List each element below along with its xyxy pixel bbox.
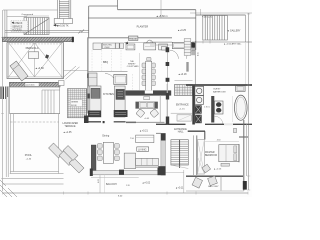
entry door arc right bbox=[186, 50, 195, 59]
dark block bottom right bbox=[243, 181, 247, 190]
planter top wall bbox=[118, 9, 196, 11]
balcony chairs right 1 bbox=[192, 177, 202, 188]
kitchen counter wall line bbox=[88, 37, 172, 39]
gallery stair top rail bbox=[196, 14, 246, 16]
svg-text:ENTRANCE: ENTRANCE bbox=[176, 104, 189, 107]
corridor wall dark cap b bbox=[166, 117, 169, 125]
armchair left bbox=[136, 109, 145, 118]
left wall double line a bbox=[4, 10, 6, 38]
bed dim line bbox=[205, 141, 239, 143]
counter box 4 bbox=[120, 43, 124, 49]
pool deck south line2 bbox=[3, 183, 64, 185]
pool inner left line3 bbox=[9, 114, 11, 174]
door threshold mark bbox=[103, 121, 105, 123]
svg-text:Dining: Dining bbox=[102, 135, 109, 138]
left wall marks gallery bbox=[186, 62, 188, 72]
pergola roof diagonals bbox=[9, 43, 62, 77]
svg-text:GUEST: GUEST bbox=[213, 89, 221, 91]
wardrobe diagonals bbox=[198, 140, 205, 175]
corridor wall dark cap a bbox=[166, 93, 169, 100]
gallery shelf stripes bbox=[184, 39, 191, 56]
porch edge line bbox=[171, 112, 193, 114]
stair east wall bbox=[193, 135, 195, 175]
svg-text:SERVICE: SERVICE bbox=[12, 26, 23, 28]
svg-text:+CHECK: +CHECK bbox=[13, 23, 23, 25]
winery room west line bbox=[138, 53, 140, 90]
balcony chairs right 2 bbox=[208, 176, 218, 186]
planter east vline bbox=[160, 0, 162, 18]
sofa cushion 1 bbox=[140, 103, 146, 108]
bedroom north wall bbox=[205, 123, 252, 125]
svg-text:▲+0.02: ▲+0.02 bbox=[142, 182, 151, 185]
main sofa seat bbox=[136, 158, 159, 165]
svg-text:BBQ: BBQ bbox=[103, 61, 108, 64]
kitchen tall unit right bbox=[114, 75, 127, 85]
rail dark left end bbox=[90, 169, 93, 177]
gallery east light line bbox=[245, 42, 247, 85]
counter box A inner bbox=[127, 45, 134, 49]
bathroom mid faint line bbox=[231, 96, 233, 122]
corridor door post 3 bbox=[166, 78, 170, 82]
hall west wall band bbox=[161, 133, 166, 175]
bottom right balcony line bbox=[186, 190, 244, 192]
top-left wall stub bbox=[7, 16, 27, 18]
LIVING boxed label bbox=[137, 147, 149, 151]
porch bench diagonal bbox=[177, 115, 192, 121]
island right drawer lines bbox=[115, 112, 126, 114]
bed bench bbox=[221, 163, 229, 166]
planter band end post bbox=[72, 37, 74, 42]
dining chairs left bbox=[97, 144, 102, 161]
wall jog vertical bbox=[204, 131, 206, 139]
entry dark blob bbox=[191, 43, 195, 48]
bed pillow 2 bbox=[234, 154, 237, 161]
island left lower dark bbox=[88, 111, 101, 118]
counter appliance box 1 bbox=[93, 43, 101, 49]
hall wall dark cap top bbox=[161, 133, 166, 140]
svg-text:4.50: 4.50 bbox=[217, 140, 221, 142]
gallery right wall bbox=[245, 15, 247, 42]
pool left inner lines bbox=[5, 87, 7, 177]
right wall lower bbox=[243, 120, 245, 191]
pool water dashed line bbox=[10, 121, 58, 123]
svg-text:COURTYARD: COURTYARD bbox=[127, 65, 139, 68]
wall south of kitchen bbox=[89, 121, 102, 123]
wall dark segment bbox=[126, 122, 136, 124]
corridor wall lower part bbox=[166, 84, 168, 124]
svg-text:▲+0.11: ▲+0.11 bbox=[175, 187, 184, 190]
kitchen island left bbox=[90, 86, 101, 117]
svg-text:HALL: HALL bbox=[178, 131, 184, 134]
top vertical stub bbox=[117, 0, 119, 10]
svg-text:+1.15: +1.15 bbox=[179, 109, 185, 111]
hall west wall stub line bbox=[156, 132, 161, 134]
kitchen door arc bbox=[105, 74, 116, 85]
deck area outline bbox=[10, 87, 60, 114]
basin circle 1 bbox=[197, 88, 202, 93]
bed pillow 1 bbox=[234, 146, 237, 153]
planter right wall bbox=[195, 10, 197, 50]
bedroom chair bbox=[202, 164, 211, 173]
pool bottom line2 bbox=[10, 173, 64, 175]
corridor closet hline 2 bbox=[150, 44, 172, 46]
CHECK SERVICE ACCESS label bbox=[11, 21, 28, 32]
svg-text:BALCONY: BALCONY bbox=[208, 185, 219, 188]
living north wall bbox=[126, 121, 165, 123]
terrace wall label box bbox=[25, 83, 39, 87]
main sofa chaise bbox=[124, 153, 135, 169]
column south of kitchen bbox=[84, 116, 89, 124]
entrance upper west wall bbox=[159, 95, 161, 122]
bedroom west wall bbox=[196, 135, 198, 175]
svg-text:OVEN: OVEN bbox=[104, 47, 110, 49]
svg-text:▲+0.13: ▲+0.13 bbox=[214, 167, 222, 170]
green roof grid block bbox=[68, 89, 87, 118]
wall east of door gap bbox=[114, 121, 126, 123]
svg-text:Overground: Overground bbox=[22, 13, 34, 16]
corridor closet hline 1 bbox=[150, 41, 172, 43]
shower X mark 2 bbox=[196, 115, 201, 122]
kitchen mid wall line bbox=[88, 70, 128, 72]
terrace south hatched wall bbox=[10, 82, 61, 87]
art gallery dimension line bbox=[192, 41, 252, 43]
bathroom door arc bbox=[215, 116, 223, 124]
entry closet inner bbox=[174, 44, 185, 48]
left wall double line b bbox=[6, 10, 8, 38]
winery south thick wall bbox=[126, 90, 172, 95]
pergola top tick hatch bbox=[9, 43, 60, 45]
balcony east wall bbox=[220, 176, 222, 190]
corridor wall bbox=[166, 47, 168, 84]
pool right edge bbox=[58, 114, 60, 174]
fridge unit divider bbox=[89, 77, 98, 79]
island right lower dark bbox=[114, 110, 128, 117]
sink inner line bbox=[145, 45, 155, 47]
guest basin box 2 bbox=[195, 96, 204, 105]
fridge label box bbox=[129, 36, 138, 40]
pergola inner right line bbox=[61, 43, 63, 79]
vertical dim line balcony bbox=[99, 175, 101, 193]
bedroom corner wall top bbox=[239, 136, 248, 138]
guest basin box 1 bbox=[195, 86, 204, 95]
balcony glass rail band bbox=[91, 171, 160, 175]
right basin bowl 1 bbox=[216, 102, 221, 107]
svg-text:▲+0.21: ▲+0.21 bbox=[139, 129, 148, 132]
thick wall west of dining bbox=[91, 145, 96, 170]
long table head chair bbox=[147, 57, 151, 61]
svg-text:pool deck: pool deck bbox=[26, 85, 36, 87]
arrow to stair bbox=[54, 24, 60, 26]
gallery west wall bbox=[194, 41, 196, 85]
svg-text:BALCONY: BALCONY bbox=[106, 183, 117, 186]
pergola table bbox=[28, 52, 38, 59]
svg-text:BEDROOM: BEDROOM bbox=[205, 155, 217, 157]
entry door arc left bbox=[170, 50, 179, 59]
tall unit inner rect bbox=[115, 76, 125, 83]
gallery stair top right bbox=[203, 16, 228, 41]
main vertical wall west of kitchen bbox=[88, 6, 90, 37]
dimension tick right top bbox=[200, 9, 202, 15]
bathroom north wall bbox=[186, 84, 252, 86]
bathtub inner bbox=[236, 97, 245, 118]
svg-text:LANDSCAPED: LANDSCAPED bbox=[63, 122, 79, 125]
right basin unit bbox=[215, 101, 224, 114]
terrace ramp diagonal 1 bbox=[62, 66, 76, 79]
vertical line right balcony bbox=[183, 170, 185, 193]
bathroom divider wall bbox=[211, 96, 214, 123]
pool left inner line2 bbox=[7, 87, 9, 177]
wc cistern box bbox=[236, 86, 246, 92]
dining table bbox=[103, 142, 113, 163]
floor grid dashed lines bbox=[92, 50, 121, 71]
svg-text:ENTRANCE: ENTRANCE bbox=[174, 128, 187, 131]
bedroom south wall bbox=[186, 175, 243, 177]
winery counter box A bbox=[126, 44, 135, 50]
left boundary line bbox=[1, 10, 3, 191]
terrace edge line bbox=[64, 69, 89, 71]
small box at band end bbox=[59, 81, 65, 86]
west wall cabinet dark 1 bbox=[87, 74, 90, 79]
svg-text:KITCHEN: KITCHEN bbox=[103, 93, 114, 96]
shower dark box 1 bbox=[195, 105, 202, 113]
counter end marker bbox=[125, 42, 128, 45]
sofa console table bbox=[144, 97, 150, 100]
svg-text:▲+0.25: ▲+0.25 bbox=[178, 29, 187, 32]
roof ladder top-center bbox=[58, 0, 71, 19]
long dining table bbox=[146, 61, 152, 91]
counter hob box bbox=[115, 43, 119, 49]
shower dark box 2 bbox=[195, 115, 202, 124]
long table chairs right bbox=[152, 63, 156, 86]
art gallery ticks bbox=[196, 41, 210, 44]
balcony line right bbox=[162, 172, 184, 174]
armchair right bbox=[150, 109, 159, 118]
TV console bbox=[136, 135, 154, 143]
svg-text:MASTER: MASTER bbox=[205, 151, 215, 154]
deck step lines bbox=[42, 90, 60, 114]
winery counter box B bbox=[159, 44, 168, 50]
svg-text:1.20: 1.20 bbox=[126, 185, 130, 187]
main sofa cushions bbox=[141, 158, 152, 165]
svg-text:BATHROOM: BATHROOM bbox=[213, 90, 226, 93]
svg-text:4.50 1.20: 4.50 1.20 bbox=[202, 16, 213, 19]
long table chairs left bbox=[142, 63, 146, 86]
sofa dark armrest right bbox=[154, 102, 157, 109]
living sofa north bbox=[136, 102, 158, 109]
entrance hall north wall bbox=[156, 123, 186, 125]
bed bbox=[219, 145, 239, 162]
balcony floor line bbox=[91, 177, 139, 179]
green roof label box bbox=[70, 100, 82, 107]
svg-text:▲+4.50: ▲+4.50 bbox=[35, 67, 44, 70]
bed blanket line bbox=[225, 145, 227, 162]
svg-text:GREEN: GREEN bbox=[71, 102, 79, 104]
sink faucet arc bbox=[147, 40, 153, 43]
svg-text:+0.45: +0.45 bbox=[144, 118, 150, 120]
line break symbol bbox=[79, 29, 84, 33]
counter row line bbox=[124, 41, 172, 43]
entry closet box 2 bbox=[186, 42, 194, 48]
sofa dark armrest left bbox=[136, 102, 139, 109]
bottom dimension ticks bbox=[3, 192, 248, 195]
main sofa back bbox=[136, 166, 159, 168]
entry mat top line bbox=[175, 80, 193, 82]
entry gray block below bbox=[191, 48, 195, 55]
hall wall dark cap bottom bbox=[158, 166, 166, 175]
pergola chaise lounge bbox=[10, 61, 28, 81]
winery dashed line bbox=[131, 74, 133, 90]
entry closet box 1 bbox=[172, 42, 186, 48]
stove inner lines bbox=[118, 91, 124, 96]
pergola inner bottom line bbox=[7, 76, 64, 78]
pool bottom inner line bbox=[10, 171, 58, 173]
island right stove dark bbox=[116, 89, 124, 99]
svg-text:▲+5.60 m: ▲+5.60 m bbox=[156, 15, 168, 18]
shower X mark 1 bbox=[196, 106, 201, 113]
vertical line below table bbox=[103, 175, 105, 193]
svg-text:ROOF: ROOF bbox=[71, 105, 78, 107]
west wall cabinet dark 2 bbox=[87, 94, 90, 99]
svg-text:1.70 m: 1.70 m bbox=[204, 107, 210, 109]
top-left long line bbox=[3, 9, 57, 11]
pergola inner left line bbox=[8, 43, 10, 79]
ground hatch bottom-left corner bbox=[0, 180, 17, 197]
pergola outline bbox=[7, 43, 64, 79]
pergola grill dark mark bbox=[45, 54, 49, 58]
right wall lower inner bbox=[245, 124, 247, 176]
right dimension line bbox=[248, 13, 250, 190]
upper terrace edge lower line bbox=[5, 31, 89, 33]
pool-side steps dark marks bbox=[1, 87, 8, 100]
kitchen fridge unit bbox=[89, 73, 98, 86]
kitchen west wall bbox=[87, 37, 89, 113]
svg-text:PERGOLA: PERGOLA bbox=[26, 46, 39, 50]
wall door notch bbox=[145, 90, 153, 93]
svg-text:4.55: 4.55 bbox=[197, 52, 199, 56]
top-right dimension line bbox=[190, 12, 252, 14]
bed headboard bbox=[238, 144, 240, 162]
bottom dimension line bbox=[3, 192, 248, 194]
svg-text:▲+5.56 TK: ▲+5.56 TK bbox=[57, 24, 69, 27]
left dimension ticks bbox=[1, 37, 4, 178]
ladder landing bbox=[54, 19, 72, 24]
svg-text:FRIDGE: FRIDGE bbox=[129, 38, 137, 40]
bathtub bbox=[235, 95, 248, 120]
bedroom nightstand bbox=[234, 128, 237, 132]
dining chairs right bbox=[115, 144, 120, 161]
planter wall hatched band bbox=[2, 37, 73, 41]
svg-text:▲+0.18: ▲+0.18 bbox=[178, 73, 187, 76]
wall lighter gap bbox=[224, 123, 233, 125]
svg-text:ACCESS: ACCESS bbox=[12, 29, 22, 32]
svg-text:LIVING: LIVING bbox=[138, 147, 147, 151]
svg-text:◄ GALLERY: ◄ GALLERY bbox=[227, 29, 241, 32]
terrace ramp diagonal 2 bbox=[66, 67, 80, 80]
svg-text:POOL: POOL bbox=[25, 153, 33, 157]
long table foot chair bbox=[147, 92, 151, 95]
island left drawer lines bbox=[90, 113, 100, 115]
right dimension ticks bbox=[247, 14, 250, 190]
guest bathroom west wall dark bbox=[192, 85, 195, 125]
island left sink block bbox=[91, 88, 100, 98]
stair upper rail line bbox=[24, 15, 49, 17]
basin circle 2 bbox=[197, 97, 202, 102]
svg-text:PLANTER: PLANTER bbox=[137, 25, 149, 28]
corridor door post 2 bbox=[166, 62, 170, 66]
pool loungers bbox=[49, 143, 84, 173]
svg-text:▲+1.35: ▲+1.35 bbox=[63, 131, 72, 134]
small label box corridor bbox=[162, 47, 167, 51]
service stair top-left bbox=[24, 18, 49, 35]
pool inner left line4 bbox=[13, 114, 15, 172]
right basin bowl 2 bbox=[216, 108, 221, 113]
counter oven box bbox=[102, 43, 115, 49]
porch bench bbox=[177, 115, 192, 121]
main staircase bbox=[171, 140, 188, 169]
svg-text:▲+0.00 ART GAL.: ▲+0.00 ART GAL. bbox=[224, 42, 242, 45]
winery sink box bbox=[144, 43, 156, 50]
bedroom north-west wall bbox=[188, 130, 205, 132]
entry steps mat bbox=[175, 85, 193, 96]
wall corner top bbox=[89, 5, 118, 7]
console inner line bbox=[136, 136, 154, 138]
kitchen island right bbox=[114, 86, 125, 117]
wardrobe tall bbox=[198, 140, 205, 175]
sofa cushion 2 bbox=[147, 103, 153, 108]
svg-text:+1.40: +1.40 bbox=[26, 158, 32, 160]
pool deck south line bbox=[3, 177, 64, 179]
svg-text:TERRACE: TERRACE bbox=[65, 125, 76, 128]
rail dark post bbox=[119, 170, 124, 175]
kitchen north wall bbox=[88, 17, 196, 19]
pool top edge bbox=[10, 113, 60, 115]
corridor door post 1 bbox=[166, 47, 170, 52]
upper terrace edge double line bbox=[5, 30, 89, 32]
wc inner bbox=[237, 87, 244, 91]
